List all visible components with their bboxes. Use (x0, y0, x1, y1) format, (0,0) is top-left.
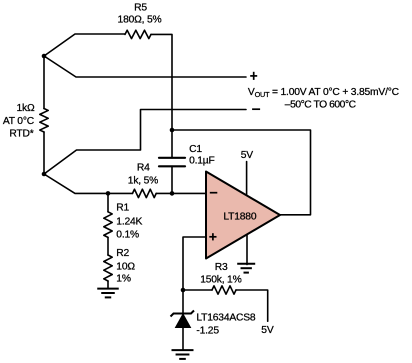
svg-text:VOUT = 1.00V AT 0°C + 3.85mV/°: VOUT = 1.00V AT 0°C + 3.85mV/°C (248, 87, 400, 99)
svg-text:0.1µF: 0.1µF (189, 155, 215, 166)
svg-text:AT 0°C: AT 0°C (3, 116, 35, 127)
svg-text:-1.25: -1.25 (196, 326, 219, 337)
svg-text:10Ω: 10Ω (116, 261, 135, 272)
svg-text:R5: R5 (134, 3, 147, 14)
svg-text:1k, 5%: 1k, 5% (128, 175, 158, 186)
svg-text:RTD*: RTD* (9, 129, 33, 140)
svg-text:R1: R1 (116, 203, 129, 214)
svg-text:1%: 1% (116, 274, 131, 285)
svg-text:1.24K: 1.24K (116, 216, 142, 227)
svg-text:0.1%: 0.1% (116, 229, 139, 240)
svg-text:5V: 5V (261, 325, 274, 336)
svg-text:C1: C1 (189, 144, 202, 155)
svg-text:R2: R2 (116, 248, 129, 259)
svg-text:R4: R4 (137, 163, 150, 174)
svg-text:1kΩ: 1kΩ (17, 103, 35, 114)
svg-text:LT1634ACS8: LT1634ACS8 (196, 313, 256, 324)
svg-text:LT1880: LT1880 (223, 212, 256, 223)
svg-text:–50°C TO 600°C: –50°C TO 600°C (285, 100, 357, 111)
svg-text:5V: 5V (241, 150, 254, 161)
svg-text:150k, 1%: 150k, 1% (200, 274, 241, 285)
svg-text:R3: R3 (215, 262, 228, 273)
svg-text:180Ω, 5%: 180Ω, 5% (118, 15, 162, 26)
